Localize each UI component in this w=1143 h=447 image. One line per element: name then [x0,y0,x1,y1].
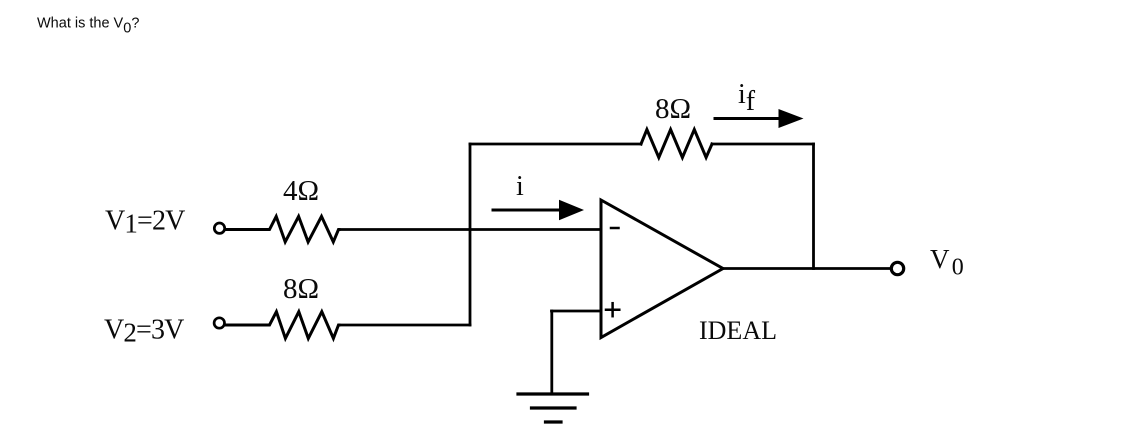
arrow if shaft [715,117,784,120]
resistor R2 8ohm zigzag [266,312,339,339]
svg-text:4Ω: 4Ω [283,175,319,207]
terminal Vo (open circle) [891,262,903,274]
op-amp minus pin mark [611,227,619,230]
wire feedback vertical down to output [812,144,815,269]
terminal V1 (open circle) [214,223,224,233]
svg-text:if: if [738,79,756,117]
resistor R1 4ohm zigzag [266,216,339,242]
wire summing-node vertical junction [469,144,472,325]
wire V2 terminal to R2 [226,324,266,327]
arrow i shaft [493,209,566,212]
svg-text:V1=2V: V1=2V [105,206,185,239]
wire R2 to summing node vertical [339,324,470,327]
wire non-inverting input horizontal [552,310,602,313]
arrow if head [779,109,804,128]
arrow i head [559,200,584,220]
svg-text:What is the V0?: What is the V0? [37,16,139,37]
wire non-inverting input vertical to ground [550,311,553,394]
ground [518,392,588,395]
svg-text:V2=3V: V2=3V [104,315,184,348]
svg-text:8Ω: 8Ω [283,273,319,305]
resistor R3 feedback 8ohm zigzag [641,130,712,158]
wire feedback top left segment [470,143,641,146]
wire feedback top right segment [712,143,814,146]
svg-text:V0: V0 [930,244,964,280]
terminal V2 (open circle) [214,318,224,328]
wire R1 to op-amp inverting input (summing node) [339,228,601,231]
wire op-amp output to terminal [723,267,891,270]
svg-text:8Ω: 8Ω [655,93,691,125]
op-amp plus pin mark [606,309,619,312]
svg-text:IDEAL: IDEAL [699,316,777,345]
op-amp U1 triangle [601,200,723,338]
wire V1 terminal to R1 [226,228,266,231]
svg-text:i: i [516,171,524,202]
